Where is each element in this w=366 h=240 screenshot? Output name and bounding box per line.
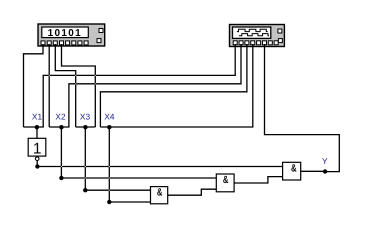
junction dot X2 branch <box>59 176 63 180</box>
wire WG out4 to node X3 right <box>62 44 96 127</box>
word generator XWG1 <box>38 24 105 46</box>
wire H2 X2 to AND2 input A <box>61 177 216 179</box>
junction dot NOT output <box>35 164 39 168</box>
svg-text:1: 1 <box>33 141 42 158</box>
crossing pinches <box>49 75 110 191</box>
svg-text:&: & <box>157 187 163 199</box>
wire X1 bracket bottom <box>24 44 236 127</box>
logic analyzer XLA1 <box>230 25 285 47</box>
wire node X3 down <box>84 127 86 190</box>
wire X4 bracket bottom to analyzer in4 <box>100 44 252 127</box>
wire node X2 down <box>60 127 62 178</box>
svg-text:10101: 10101 <box>48 28 82 39</box>
junction dot node X3 <box>83 125 87 129</box>
wire H4 X4 to AND1 input B <box>109 201 150 203</box>
svg-text:&: & <box>223 174 229 186</box>
wire AND2 output to AND3 input B <box>234 177 283 183</box>
AND gate U2 <box>151 187 168 204</box>
AND gate U4 <box>283 162 301 180</box>
svg-text:X3: X3 <box>80 112 91 122</box>
wire X3 bracket bottom <box>76 126 96 128</box>
wire node X4 down <box>108 127 110 202</box>
junction dot node X1 <box>35 125 39 129</box>
svg-text:X1: X1 <box>32 112 43 122</box>
wire AND1 output to AND2 input B <box>168 189 217 195</box>
wire H1 NOT output to AND3 input A <box>37 166 282 168</box>
wire WG out2 to node X2 <box>48 44 50 127</box>
AND gate U3 <box>216 174 234 192</box>
wire WG out1 to node X1 <box>24 44 44 127</box>
junction dot X3 branch <box>83 188 87 192</box>
wire NOT bubble to junction <box>36 161 38 167</box>
junction dot node Y <box>323 169 327 173</box>
junction dot node X4 <box>107 125 111 129</box>
wire H3 X3 to AND1 input A <box>85 189 150 191</box>
wire analyzer in3 to X4 left <box>100 44 247 127</box>
wire X2 bracket bottom <box>49 44 241 127</box>
wire analyzer in6 to node Y <box>265 44 340 172</box>
svg-text:Y: Y <box>322 156 328 166</box>
junction dot X4 branch <box>107 200 111 204</box>
wire WG out3 to node X3 <box>55 44 75 127</box>
NOT gate U1 <box>28 138 46 160</box>
junction dot node X2 <box>59 125 63 129</box>
svg-text:&: & <box>291 163 297 175</box>
wire node X1 down to NOT gate <box>36 127 38 138</box>
wire AND3 output to node Y <box>301 170 325 172</box>
svg-text:X2: X2 <box>55 112 66 122</box>
svg-text:X4: X4 <box>104 112 115 122</box>
